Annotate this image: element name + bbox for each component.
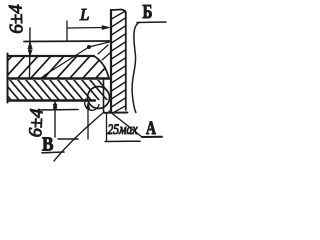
extension line to weld: [87, 104, 89, 139]
svg-text:L: L: [79, 5, 89, 24]
upper plate end weld curve: [94, 56, 109, 77]
dimension line L: [67, 27, 107, 30]
vertical plate left edge: [110, 10, 112, 112]
svg-text:Б: Б: [143, 1, 153, 23]
А underline: [142, 136, 162, 138]
svg-text:А: А: [146, 118, 156, 139]
А leader diagonal: [109, 111, 142, 137]
leader from dot to corner: [89, 42, 109, 47]
Б leader S-curve: [132, 23, 139, 113]
В underline: [42, 151, 64, 154]
vertical plate bottom edge: [104, 112, 128, 114]
lower plate bottom edge: [8, 99, 96, 101]
plates interface line: [8, 77, 111, 79]
Б underline: [137, 21, 166, 24]
arrowhead down at plate top: [28, 50, 32, 56]
upper plate top edge: [8, 55, 95, 57]
arrowhead at interface: [41, 74, 49, 79]
arrowhead at weld bottom edge: [86, 103, 90, 110]
L arrowhead right: [102, 26, 110, 30]
weld bead circle: [88, 87, 110, 109]
vertical plate right edge: [125, 12, 127, 110]
upper plate hatching: [0, 56, 116, 78]
25max extension line: [106, 113, 108, 142]
weld bottom line: [38, 109, 78, 112]
dimension line 6±4 bottom vertical: [54, 101, 56, 138]
horizontal plates left end: [7, 54, 9, 103]
lower plate hatching: [0, 80, 115, 100]
weld hatch marks top right: [98, 45, 108, 54]
arrowhead up at weld top line: [28, 42, 32, 50]
svg-text:6±4: 6±4: [5, 3, 27, 34]
L left tick: [66, 21, 68, 41]
lower plate end edge: [103, 80, 105, 112]
vertical plate top edge: [111, 10, 126, 15]
25max underline: [105, 140, 140, 142]
В top leader line: [58, 138, 78, 140]
leader from dot to interface arrow: [44, 47, 89, 76]
В leader diagonal: [54, 112, 104, 161]
weld top line: [24, 40, 110, 43]
arrowhead up at plate bottom: [53, 102, 57, 109]
weld bead inner arc: [85, 99, 99, 110]
leader dot node: [87, 45, 91, 49]
vertical plate hatching: [112, 11, 126, 112]
arrowhead down at weld bottom: [53, 104, 57, 110]
dimension line 6±4 top vertical: [29, 28, 32, 77]
